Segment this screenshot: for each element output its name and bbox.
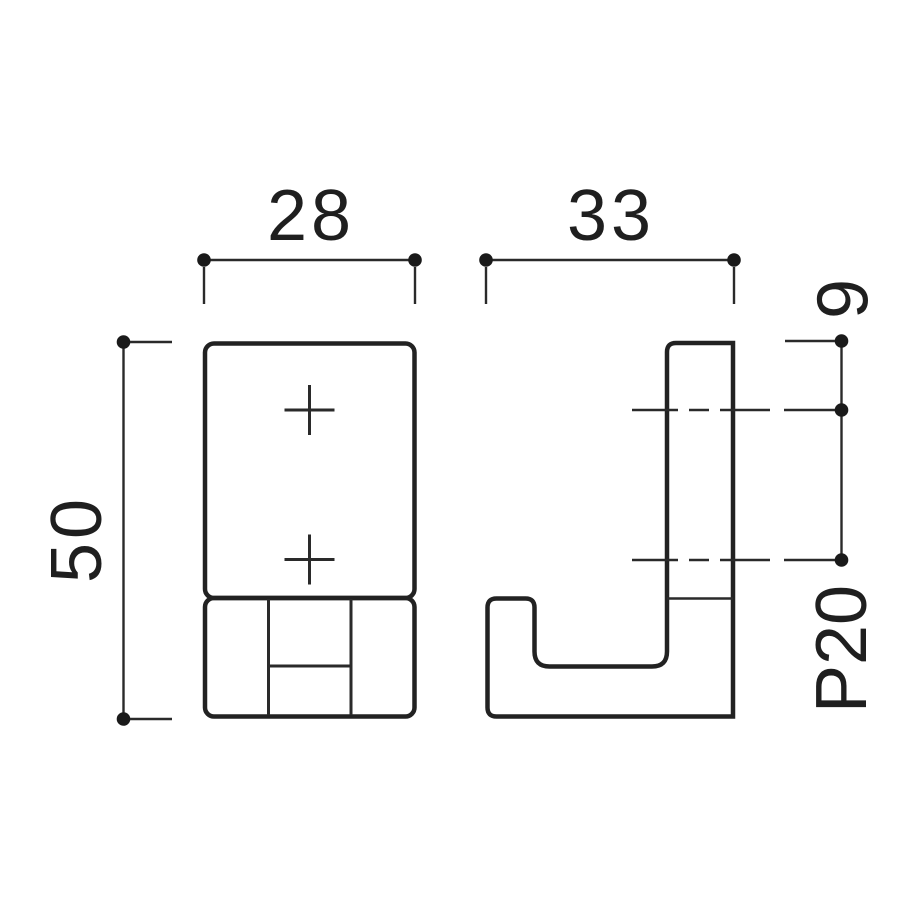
svg-text:50: 50 (37, 495, 117, 583)
svg-text:28: 28 (267, 176, 355, 256)
svg-text:33: 33 (567, 176, 655, 256)
svg-text:9: 9 (804, 279, 884, 319)
svg-text:P20: P20 (802, 585, 882, 713)
